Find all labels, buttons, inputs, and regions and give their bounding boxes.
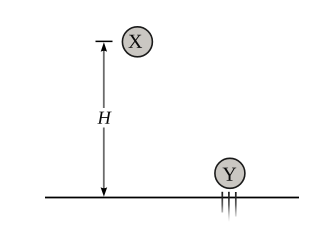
tick at top of H dimension <box>96 40 113 42</box>
ground line <box>45 197 299 199</box>
arrowhead up <box>101 42 107 52</box>
impact mark right <box>235 192 237 217</box>
label X <box>128 35 142 48</box>
wire: arrow shaft lower segment <box>103 128 105 190</box>
arrowhead down <box>101 187 108 196</box>
impact mark middle <box>228 192 230 222</box>
wire: arrow shaft upper segment <box>103 49 105 108</box>
label Y <box>223 168 237 181</box>
ball X <box>122 27 152 57</box>
impact mark left <box>221 192 223 213</box>
label H <box>97 112 111 124</box>
ball Y <box>215 158 245 188</box>
